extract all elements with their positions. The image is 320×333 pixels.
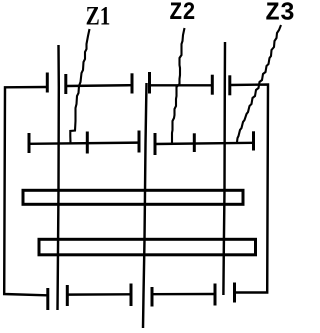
svg-text:Z3: Z3 <box>265 0 294 28</box>
row1 tick at x149 <box>148 72 151 94</box>
row4 gear line 67-131 <box>67 293 131 296</box>
svg-text:Z2: Z2 <box>169 0 195 26</box>
row1 gear line 66-132 <box>66 84 132 87</box>
leader line Z2 <box>172 28 185 143</box>
row1 tick at x47 <box>46 73 49 93</box>
frame bracket left <box>4 87 47 295</box>
row1 tick at x212 <box>211 75 214 95</box>
shaft S1 (left) <box>58 45 59 310</box>
row1 gear line 149-212 <box>150 84 213 86</box>
leader line Z1 <box>70 29 89 143</box>
row1 tick at x66 <box>64 74 67 94</box>
row4 tick at x67 <box>66 285 69 306</box>
shaft S3 (right) <box>223 42 225 295</box>
sliding sleeve rectangle 2 <box>39 239 256 255</box>
row2 tick at x87 <box>86 132 89 154</box>
row2 tick at x29 <box>28 133 31 153</box>
row4 tick at x152 <box>151 287 154 307</box>
row2 tick at x253 <box>252 131 255 150</box>
row4 tick at x234 <box>233 283 236 303</box>
sliding sleeve rectangle 1 <box>23 190 243 204</box>
row2 tick at x139 <box>138 131 141 153</box>
svg-text:Z1: Z1 <box>86 1 111 31</box>
row4 tick at x131 <box>130 284 133 307</box>
leader line Z3 <box>237 25 281 142</box>
row4 gear line 152-215 <box>152 293 215 296</box>
row1 tick at x132 <box>131 73 134 93</box>
row2 tick at x155 <box>154 133 157 155</box>
shaft S2 (center) <box>143 83 147 328</box>
row2 gear line 29-139 <box>29 143 139 144</box>
row2 gear line 155-253 <box>155 143 254 144</box>
row4 tick at x48 <box>46 288 49 310</box>
row4 tick at x215 <box>214 284 217 306</box>
row2 tick at x194 <box>193 133 196 152</box>
frame bracket right <box>230 85 268 293</box>
row1 tick at x230 <box>228 75 231 95</box>
